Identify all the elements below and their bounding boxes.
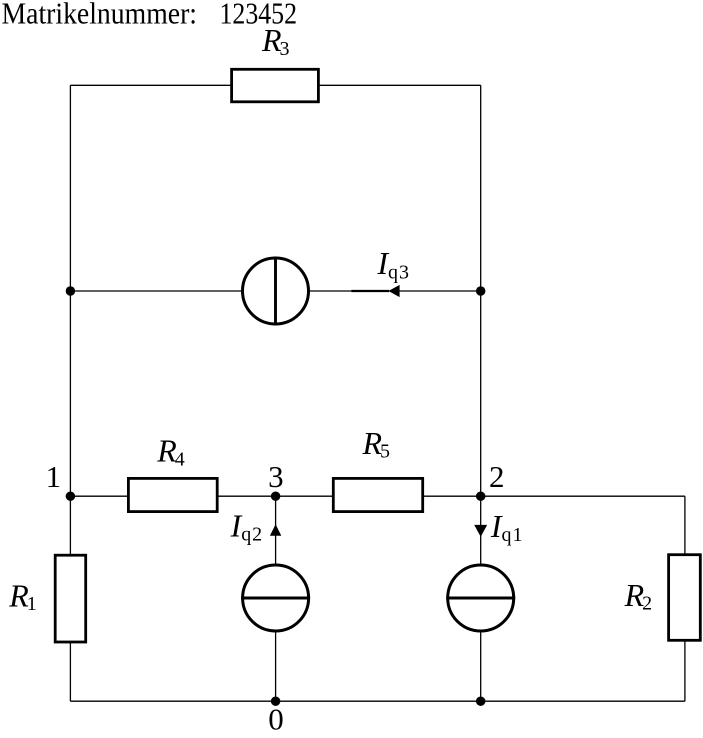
- node 1 junction dot: [66, 491, 76, 501]
- junction node dot right of Iq3 row: [476, 286, 486, 296]
- svg-text:3: 3: [268, 459, 284, 494]
- wire middle row horizontal (nodes 1-3-2): [70, 495, 685, 497]
- svg-text:0: 0: [268, 702, 284, 737]
- junction node dot left of Iq3 row: [66, 286, 76, 296]
- node 0 junction dot: [271, 696, 281, 706]
- svg-text:R4: R4: [156, 432, 185, 470]
- svg-text:Iq3: Iq3: [376, 245, 409, 283]
- wire Iq2 branch vertical: [275, 496, 277, 701]
- svg-text:Iq1: Iq1: [490, 508, 523, 546]
- current source Iq2: [241, 565, 310, 631]
- wire left vertical: [69, 85, 71, 701]
- svg-text:Matrikelnummer:: Matrikelnummer:: [2, 0, 198, 31]
- wire Iq3 row horizontal: [70, 290, 480, 292]
- current source Iq1: [446, 565, 515, 631]
- current arrow Iq2 (points up): [270, 524, 281, 536]
- svg-text:R1: R1: [8, 578, 37, 615]
- current source Iq3: [243, 257, 309, 326]
- svg-text:123452: 123452: [220, 0, 298, 31]
- svg-text:Iq2: Iq2: [230, 507, 263, 545]
- resistor R2: [669, 555, 701, 641]
- svg-text:R2: R2: [624, 577, 653, 614]
- wire right vertical: [480, 85, 482, 701]
- current arrow Iq3 (points left): [351, 285, 399, 297]
- wire bottom horizontal: [70, 700, 685, 702]
- resistor R5: [333, 478, 422, 511]
- node 2 junction dot: [476, 491, 486, 501]
- svg-text:2: 2: [489, 459, 505, 494]
- resistor R3: [232, 69, 319, 102]
- resistor R1: [55, 555, 85, 642]
- wire far-right vertical (R2 branch): [684, 496, 686, 701]
- current arrow Iq1 (points down): [474, 525, 487, 537]
- junction dot bottom of Iq1 branch: [476, 696, 486, 706]
- svg-text:R5: R5: [362, 425, 391, 462]
- wire top horizontal: [70, 84, 480, 86]
- svg-text:1: 1: [46, 459, 62, 494]
- node 3 junction dot: [271, 491, 281, 501]
- resistor R4: [128, 478, 217, 511]
